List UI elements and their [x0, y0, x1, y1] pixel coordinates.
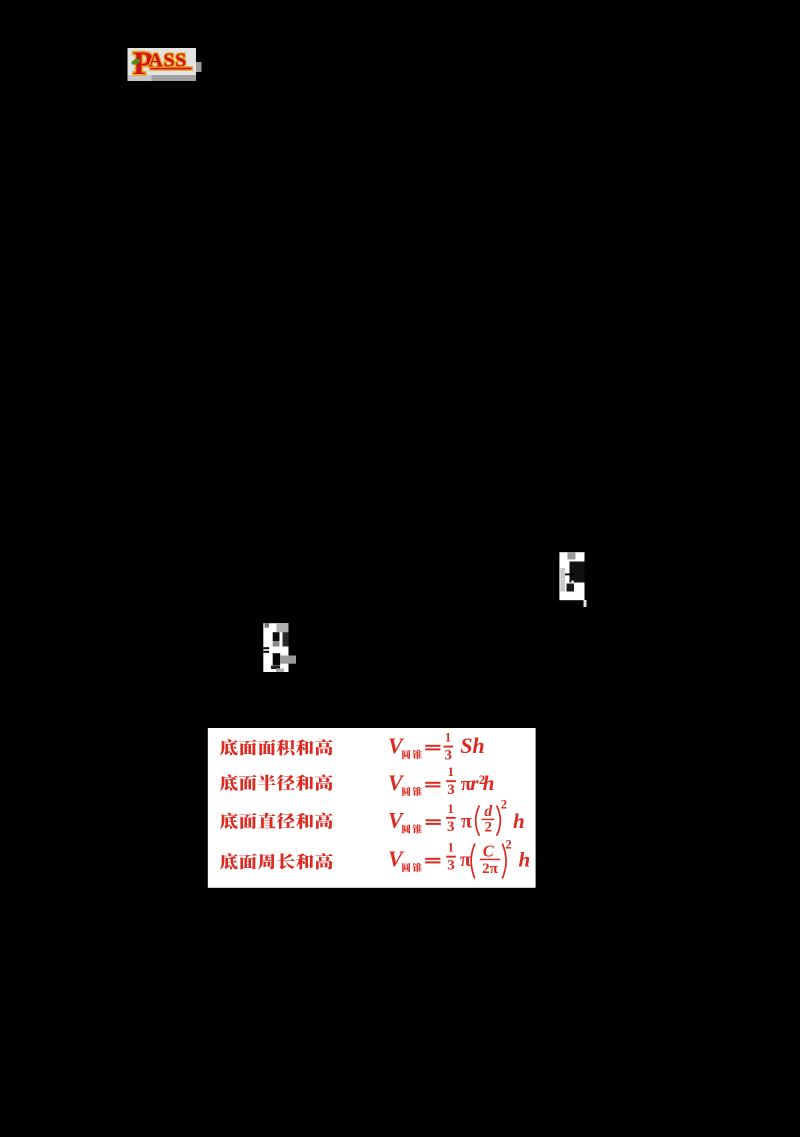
- svg-text:2: 2: [506, 837, 512, 851]
- svg-text:3: 3: [447, 858, 455, 874]
- svg-text:3: 3: [447, 782, 455, 798]
- svg-text:1: 1: [448, 765, 454, 779]
- svg-text:ASS: ASS: [149, 50, 187, 72]
- svg-text:2: 2: [501, 797, 507, 811]
- svg-text:1: 1: [448, 841, 454, 855]
- svg-text:d: d: [484, 803, 492, 820]
- svg-text:h: h: [519, 848, 531, 872]
- svg-text:1: 1: [447, 802, 453, 816]
- svg-text:2: 2: [485, 820, 493, 836]
- svg-text:2π: 2π: [482, 861, 499, 877]
- svg-text:3: 3: [447, 819, 455, 835]
- svg-text:h: h: [513, 809, 525, 833]
- svg-text:h: h: [483, 771, 495, 795]
- svg-text:π: π: [461, 811, 472, 833]
- svg-text:3: 3: [444, 748, 452, 764]
- svg-text:Sh: Sh: [460, 733, 484, 758]
- svg-text:C: C: [483, 841, 495, 860]
- svg-text:π: π: [460, 849, 471, 871]
- svg-text:1: 1: [445, 731, 451, 745]
